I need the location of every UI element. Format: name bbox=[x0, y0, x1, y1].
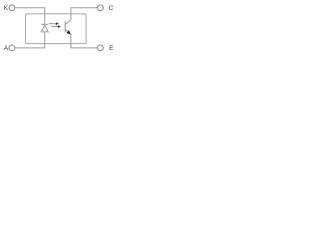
light arrow 2 bbox=[51, 25, 61, 28]
wire emitter to E terminal bbox=[71, 34, 98, 48]
terminal E bbox=[98, 45, 104, 51]
wire K terminal to LED cathode bbox=[15, 8, 45, 24]
optocoupler body box bbox=[26, 14, 87, 44]
light arrow 1 bbox=[49, 22, 59, 25]
terminal C bbox=[98, 5, 104, 11]
emitter arrowhead bbox=[66, 30, 71, 34]
wire LED anode to A terminal bbox=[15, 32, 45, 48]
LED triangle (anode below, pointing up) bbox=[41, 25, 48, 32]
phototransistor emitter branch bbox=[66, 29, 70, 32]
phototransistor base bar bbox=[64, 22, 66, 33]
svg-text:K: K bbox=[4, 5, 9, 12]
svg-text:A: A bbox=[4, 45, 9, 52]
phototransistor collector branch and wire to C terminal bbox=[66, 8, 98, 25]
svg-text:E: E bbox=[109, 45, 114, 52]
svg-text:C: C bbox=[109, 5, 114, 12]
terminal A bbox=[9, 45, 15, 51]
LED cathode bar bbox=[41, 23, 48, 25]
terminal K bbox=[9, 5, 15, 11]
